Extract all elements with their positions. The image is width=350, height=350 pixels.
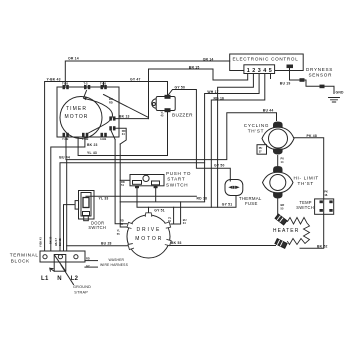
wire BR-15 from timer right diagonal up to control pin 1 xyxy=(149,69,248,119)
wire GY-50 from buzzer top elbow down and across to thermal fuse xyxy=(168,90,231,182)
svg-text:N: N xyxy=(57,276,62,282)
svg-text:GROUND: GROUND xyxy=(73,285,91,289)
timer bottom terminal 2 xyxy=(82,133,85,137)
svg-text:L-GB: L-GB xyxy=(82,137,88,141)
hi-limit bottom terminal xyxy=(273,193,282,199)
timer top terminal 2 xyxy=(84,85,87,89)
wire RD-50 riser pair to drive motor upper-left xyxy=(115,140,127,224)
terminal block N terminal xyxy=(58,255,62,259)
svg-text:12345: 12345 xyxy=(247,68,274,74)
svg-text:4-GB: 4-GB xyxy=(100,137,106,141)
electronic control box xyxy=(230,54,304,71)
drive motor circle xyxy=(127,215,170,258)
wire BK-53 from drive motor lower-right to heater xyxy=(171,245,276,247)
wire from lower pair down to riser xyxy=(111,131,115,140)
wire washer harness RD stub xyxy=(85,260,98,262)
svg-text:RD 16: RD 16 xyxy=(214,96,225,100)
wire BU-28 from terminal block to drive motor lower-left xyxy=(67,245,128,247)
door switch left tab xyxy=(75,201,79,210)
svg-text:RD: RD xyxy=(122,129,126,133)
temp switch terminal lower xyxy=(320,209,323,212)
cycling thermostat circle xyxy=(269,129,288,148)
svg-text:BK 53: BK 53 xyxy=(171,241,182,245)
wire RD-18 from push-to-start to mid riser xyxy=(120,188,204,202)
heater coil zigzag xyxy=(288,218,310,245)
svg-text:WH 17: WH 17 xyxy=(207,90,218,94)
svg-text:GY 51: GY 51 xyxy=(154,209,165,213)
svg-text:TH'ST: TH'ST xyxy=(298,181,314,186)
terminal block box xyxy=(40,251,85,262)
wire from lower-right pair to riser xyxy=(116,128,127,144)
heater top connector plug xyxy=(275,214,287,225)
terminal block L1 terminal xyxy=(43,255,47,259)
svg-text:OR 14: OR 14 xyxy=(68,57,79,61)
wire OR-14 from timer to electronic control xyxy=(65,61,229,86)
svg-text:BK 23: BK 23 xyxy=(87,143,98,147)
wire BU-18 riser door switch feed xyxy=(64,205,75,251)
svg-text:SWITCH: SWITCH xyxy=(296,205,314,210)
timer bottom terminal 3 xyxy=(101,133,104,137)
svg-text:YL 43: YL 43 xyxy=(87,151,97,155)
svg-text:BU 19: BU 19 xyxy=(280,81,291,85)
ground strap diagonal xyxy=(55,255,66,271)
svg-text:Y-BK 43: Y-BK 43 xyxy=(38,237,42,247)
wire YL-55 second riser to drive motor upper-left xyxy=(120,144,127,227)
PU-37 connector box xyxy=(257,145,267,155)
hi-limit thermostat eye xyxy=(263,172,294,193)
push-to-start contact right xyxy=(152,181,160,185)
electronic control pin box 1 2 3 4 5 xyxy=(244,65,275,74)
svg-text:48-: 48- xyxy=(324,193,328,197)
push-to-start actuator circle xyxy=(143,175,149,181)
push-to-start bottom terminal left xyxy=(135,186,139,188)
wire control pin5 stub xyxy=(270,74,272,79)
wire YL-43/45 bus from timer bottom to buzzer bottom xyxy=(78,113,167,156)
svg-text:Y-GB: Y-GB xyxy=(62,137,68,141)
motor upper-right terminal xyxy=(165,222,171,228)
svg-text:BK 52: BK 52 xyxy=(317,245,328,249)
cycling top terminal xyxy=(273,122,283,128)
door switch plunger xyxy=(84,216,89,221)
svg-text:WH 17: WH 17 xyxy=(54,238,58,246)
svg-text:OR 14: OR 14 xyxy=(203,57,214,61)
svg-text:BU 1B: BU 1B xyxy=(58,238,62,246)
wire drop from Y-BK-43 line to timer top terminal T3 xyxy=(103,82,105,87)
svg-text:GY 47: GY 47 xyxy=(130,78,141,82)
wire GY-51 drop to motor upper-right terminal xyxy=(171,207,174,224)
svg-text:FUSE: FUSE xyxy=(245,201,258,206)
wire Y-BK-43 / GY-47 horizontal from left riser to buzzer top xyxy=(45,82,168,251)
svg-text:SWITCH: SWITCH xyxy=(88,225,106,230)
svg-text:YL 33: YL 33 xyxy=(99,196,109,200)
wire BU-16 dryness sensor lead with ground xyxy=(290,68,335,94)
svg-text:BK 23: BK 23 xyxy=(48,236,52,244)
svg-text:L1: L1 xyxy=(41,276,49,282)
timer motor circle xyxy=(60,97,102,139)
svg-text:TH'ST: TH'ST xyxy=(248,128,264,133)
door switch lower contact xyxy=(83,212,90,216)
motor top terminal xyxy=(145,213,152,217)
wire BU-44 from cycling thermostat across and down to left bus xyxy=(67,113,277,251)
svg-text:PK 48: PK 48 xyxy=(307,134,317,138)
svg-text:T-G: T-G xyxy=(84,81,88,85)
terminal blobs group xyxy=(63,65,333,212)
wire RD-51 stub from riser pair to push-to-start switch xyxy=(120,179,130,181)
wire washer harness GY stub xyxy=(85,266,98,268)
cycling thermostat eye xyxy=(262,127,294,149)
wire WH-17 from control pin3 stair down left xyxy=(205,74,260,202)
svg-text:START: START xyxy=(167,177,185,182)
svg-text:GY 50: GY 50 xyxy=(214,163,225,167)
temp switch terminal upper xyxy=(320,200,323,203)
terminal block L2 terminal xyxy=(74,255,78,259)
svg-text:RD: RD xyxy=(86,257,90,261)
dryness inline connector 1 xyxy=(300,78,305,82)
door switch outer body xyxy=(79,191,95,220)
svg-text:STRAP: STRAP xyxy=(74,290,88,294)
wire YL-33 from door switch to mid riser xyxy=(86,195,196,197)
buzzer bottom terminal xyxy=(165,108,171,112)
svg-text:T-GB: T-GB xyxy=(62,81,68,85)
svg-text:PU: PU xyxy=(259,146,263,150)
svg-text:TERMINAL: TERMINAL xyxy=(10,252,39,257)
door switch inner body xyxy=(81,193,91,217)
svg-text:BR 15: BR 15 xyxy=(189,65,200,69)
svg-text:HEATER: HEATER xyxy=(273,228,300,234)
svg-text:Y-BK 43: Y-BK 43 xyxy=(47,78,61,82)
svg-text:ELECTRONIC CONTROL: ELECTRONIC CONTROL xyxy=(233,57,299,62)
wire RD-16 from control pin4 stair down left to WH-17 bus xyxy=(211,74,264,208)
timer lower-right terminal pair xyxy=(109,126,115,130)
buzzer body xyxy=(152,97,176,111)
svg-text:BU 44: BU 44 xyxy=(59,155,70,159)
push-to-start switch box xyxy=(130,175,164,186)
svg-text:WIRE HARNESS: WIRE HARNESS xyxy=(100,263,129,267)
text layer xyxy=(10,57,344,295)
wire control pin2 riser down to GY-51 line xyxy=(218,74,254,208)
timer top terminal 1 xyxy=(63,85,66,89)
buzzer top terminal xyxy=(165,95,171,99)
svg-text:GY 51: GY 51 xyxy=(222,203,233,207)
timer motor box xyxy=(57,87,119,137)
timer bottom terminal 1 xyxy=(63,133,66,137)
dryness inline connector 2 xyxy=(320,85,325,89)
ground bars for dryness sensor xyxy=(329,98,340,103)
control connector to dryness sensor xyxy=(287,65,294,69)
svg-text:BUZZER: BUZZER xyxy=(172,112,193,117)
wire BR-15 stub from mid-right pair xyxy=(116,118,149,120)
svg-text:DRYNESS: DRYNESS xyxy=(306,67,333,72)
hi-limit top terminal xyxy=(273,166,282,172)
wire WH-17 bus to terminal block N xyxy=(60,163,205,251)
wire PU-14 between cycling and hi-limit thermostats xyxy=(277,156,279,166)
timer top terminal 3 xyxy=(101,85,104,89)
svg-text:BU 28: BU 28 xyxy=(101,241,112,245)
temp switch box xyxy=(315,199,334,214)
wire BK-23 from timer bottom to terminal block xyxy=(51,137,85,251)
svg-text:T-GB: T-GB xyxy=(100,81,106,85)
svg-text:SENSOR: SENSOR xyxy=(309,72,333,77)
svg-text:TIMER: TIMER xyxy=(66,106,87,112)
motor terminal bumps xyxy=(127,213,287,250)
thermal fuse inner contacts xyxy=(228,186,239,189)
wire BR-55 from hi-limit to heater connector xyxy=(277,199,279,215)
svg-text:SWITCH: SWITCH xyxy=(166,183,188,188)
push-to-start contact left xyxy=(133,181,142,185)
door switch inner contact xyxy=(83,198,89,208)
svg-text:GY 50: GY 50 xyxy=(175,85,186,89)
timer wiper arrowhead xyxy=(84,97,87,100)
wire GY-51 drop to motor top terminal xyxy=(148,207,150,212)
cycling bottom terminal xyxy=(273,149,283,155)
svg-text:BK 13: BK 13 xyxy=(119,115,130,119)
svg-text:GND: GND xyxy=(336,90,344,94)
svg-text:DRIVE: DRIVE xyxy=(137,227,162,233)
svg-text:HI- LIMIT: HI- LIMIT xyxy=(294,176,319,181)
svg-text:RD: RD xyxy=(109,101,113,105)
svg-text:GY: GY xyxy=(86,264,90,268)
neutral ground-strap box xyxy=(54,255,66,272)
wire RD-18 drop to drive motor upper-right xyxy=(171,202,181,224)
push-to-start bottom terminal right xyxy=(154,186,158,188)
svg-text:BU 44: BU 44 xyxy=(263,109,274,113)
svg-text:MOTOR: MOTOR xyxy=(65,114,89,120)
hi-limit thermostat circle xyxy=(270,175,286,191)
timer internal cam curve xyxy=(84,99,112,134)
svg-text:CYCLING: CYCLING xyxy=(244,123,269,128)
wire GY-51 from push-to-start left leg to thermal fuse xyxy=(137,188,236,208)
wire from timer bottom terminal 1 down to BU-44 bus xyxy=(65,137,67,160)
svg-text:MOTOR: MOTOR xyxy=(135,236,163,242)
svg-text:WASHER: WASHER xyxy=(109,258,125,262)
thermal fuse body xyxy=(225,180,243,196)
wire PK-48 from cycling thermostat through temp switch to BK-52 xyxy=(294,138,324,249)
motor upper-left terminal xyxy=(127,222,133,228)
motor lower-right terminal xyxy=(165,239,171,245)
motor lower-left terminal xyxy=(128,244,134,250)
svg-text:BLOCK: BLOCK xyxy=(11,258,30,263)
ground strap pointer to label xyxy=(61,265,74,285)
timer wiper arm xyxy=(84,91,87,99)
svg-text:L2: L2 xyxy=(71,276,79,282)
chassis ground arrow at neutral xyxy=(50,268,54,271)
wire BR-15 diagonal from timer bottom-right into box xyxy=(104,95,149,118)
svg-text:PUSH TO: PUSH TO xyxy=(166,171,191,176)
timer mid-right terminal pair xyxy=(109,116,115,120)
svg-text:RD 18: RD 18 xyxy=(197,196,208,200)
heater bottom connector plug xyxy=(275,239,287,249)
